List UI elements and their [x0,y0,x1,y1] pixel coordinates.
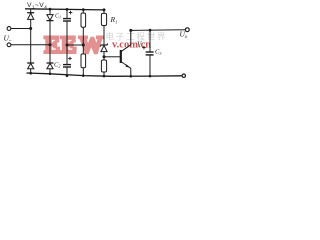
svg-text:C1: C1 [55,13,61,19]
svg-text:C2: C2 [54,61,60,68]
svg-text:V: V [137,40,142,48]
svg-text:C3: C3 [155,49,161,56]
svg-text:U~: U~ [4,34,12,45]
svg-text:V1~V4: V1~V4 [27,2,47,10]
svg-text:R1: R1 [110,15,118,25]
